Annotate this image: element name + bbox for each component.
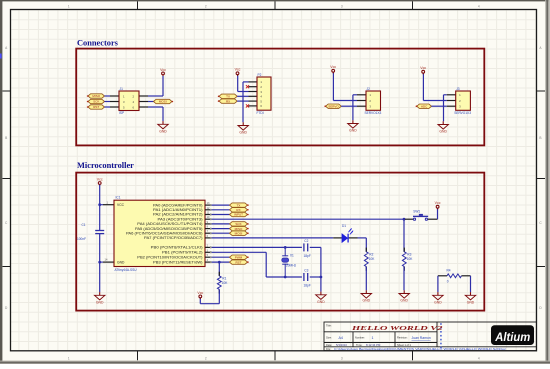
switch SW1 bbox=[405, 210, 438, 221]
microcontroller IC1 ATtiny44A-SSU bbox=[114, 196, 205, 273]
junction bbox=[403, 218, 406, 221]
wire bbox=[200, 289, 219, 303]
ground J3 bbox=[438, 121, 448, 133]
svg-text:PA4 (ADC4/USCK/SCL/T1/PCINT4): PA4 (ADC4/USCK/SCL/T1/PCINT4) bbox=[137, 222, 202, 226]
power Vcc J3 bbox=[420, 66, 426, 74]
svg-text:A4: A4 bbox=[339, 336, 343, 340]
port RX bbox=[230, 208, 249, 212]
svg-text:TX: TX bbox=[237, 203, 241, 207]
junction bbox=[284, 276, 287, 279]
svg-text:D1: D1 bbox=[342, 224, 346, 228]
svg-text:3: 3 bbox=[341, 4, 343, 8]
power Vcc SW1 bbox=[435, 201, 441, 209]
connector J1 bbox=[119, 87, 139, 115]
svg-text:PB2 (PCINT10/INT0/OC0A/CKOUT): PB2 (PCINT10/INT0/OC0A/CKOUT) bbox=[137, 255, 202, 259]
ground R4b bbox=[465, 292, 475, 304]
resistor R2 bbox=[364, 248, 375, 271]
connector J2 pins bbox=[357, 95, 366, 106]
svg-text:GND: GND bbox=[159, 130, 167, 134]
connector J1 pins left bbox=[110, 96, 148, 107]
svg-text:Vcc: Vcc bbox=[420, 66, 426, 70]
port SCK bbox=[230, 222, 249, 226]
svg-text:B: B bbox=[539, 136, 541, 140]
power Vcc R1 bbox=[197, 291, 203, 299]
svg-text:4: 4 bbox=[478, 356, 480, 360]
svg-text:1: 1 bbox=[68, 4, 70, 8]
svg-text:Vcc: Vcc bbox=[235, 68, 241, 72]
svg-text:10K: 10K bbox=[407, 257, 414, 261]
resistor R1 bbox=[217, 272, 228, 294]
wire bbox=[212, 223, 230, 225]
svg-text:10K: 10K bbox=[222, 281, 229, 285]
svg-text:C3: C3 bbox=[304, 268, 308, 272]
wire bbox=[212, 232, 230, 234]
no-connect X pin6 bbox=[246, 104, 249, 107]
svg-text:SERVO: SERVO bbox=[328, 104, 339, 108]
svg-text:2: 2 bbox=[205, 356, 207, 360]
svg-text:R3: R3 bbox=[407, 252, 411, 256]
wire bbox=[212, 209, 230, 211]
IC1 pin 1 VCC bbox=[100, 200, 114, 204]
svg-text:GND: GND bbox=[439, 130, 447, 134]
wire bbox=[243, 82, 249, 122]
wire bbox=[212, 261, 230, 263]
svg-text:J2: J2 bbox=[367, 87, 371, 91]
sheet section Connectors bbox=[76, 38, 484, 145]
svg-text:10K: 10K bbox=[369, 257, 376, 261]
svg-text:R1: R1 bbox=[222, 277, 226, 281]
svg-text:Size:: Size: bbox=[326, 336, 332, 340]
port ADC bbox=[416, 104, 432, 108]
ground J1 bbox=[158, 121, 168, 133]
junction bbox=[320, 276, 323, 279]
wire bbox=[212, 237, 334, 239]
svg-text:0: 0 bbox=[447, 279, 449, 283]
wire bbox=[237, 100, 248, 102]
wire bbox=[212, 214, 230, 216]
wire bbox=[212, 228, 230, 230]
svg-text:Juan Ramon: Juan Ramon bbox=[412, 336, 431, 340]
port RST bbox=[87, 105, 105, 109]
svg-text:GND: GND bbox=[400, 299, 408, 303]
port SCK bbox=[87, 99, 105, 103]
svg-text:1: 1 bbox=[372, 336, 374, 340]
svg-text:GND: GND bbox=[239, 131, 247, 135]
wire bbox=[237, 95, 248, 97]
svg-text:SCK: SCK bbox=[93, 100, 99, 104]
svg-text:Vcc: Vcc bbox=[330, 65, 336, 69]
svg-text:INPUT: INPUT bbox=[234, 213, 243, 217]
resistor R3 bbox=[402, 248, 413, 271]
capacitor C2 bbox=[304, 239, 311, 258]
svg-text:Time:: Time: bbox=[356, 343, 363, 347]
IC1 right pins bbox=[205, 202, 212, 263]
wire bbox=[148, 107, 163, 121]
svg-text:FTDI: FTDI bbox=[257, 111, 264, 115]
power Vcc J2 bbox=[330, 65, 336, 73]
wire bbox=[212, 204, 230, 206]
wire bbox=[218, 262, 220, 276]
connector P2 bbox=[257, 73, 272, 115]
svg-text:18pF: 18pF bbox=[304, 254, 311, 258]
svg-text:R2: R2 bbox=[369, 252, 373, 256]
svg-text:Microcontroller: Microcontroller bbox=[77, 161, 134, 170]
power Vcc IC1 bbox=[97, 177, 103, 185]
wire bbox=[437, 276, 439, 292]
svg-text:PA1 (ADC1/AIN0/PCINT1): PA1 (ADC1/AIN0/PCINT1) bbox=[153, 208, 203, 212]
svg-text:VCC: VCC bbox=[117, 203, 125, 207]
svg-text:C2: C2 bbox=[304, 239, 308, 243]
ground R4a bbox=[433, 292, 443, 304]
ground X1 bbox=[316, 292, 326, 304]
svg-text:Vcc: Vcc bbox=[160, 68, 166, 72]
LED D1 bbox=[333, 224, 357, 243]
svg-text:SERVO1X3: SERVO1X3 bbox=[454, 111, 471, 115]
sheet section Microcontroller bbox=[76, 161, 484, 310]
wire bbox=[365, 267, 367, 291]
svg-text:3: 3 bbox=[341, 356, 343, 360]
svg-text:J1: J1 bbox=[120, 87, 124, 91]
port TX bbox=[218, 94, 237, 98]
svg-text:TX: TX bbox=[226, 95, 230, 99]
svg-text:GND: GND bbox=[467, 301, 475, 305]
power Vcc P2 bbox=[235, 68, 241, 76]
wire bbox=[403, 267, 405, 291]
svg-text:X1: X1 bbox=[290, 254, 294, 258]
port MISO bbox=[87, 94, 105, 98]
svg-text:PWM: PWM bbox=[235, 255, 243, 259]
port MOSI bbox=[154, 99, 174, 103]
svg-text:ISP: ISP bbox=[119, 111, 124, 115]
svg-text:PB0 (PCINT8/XTAL1/CLKI): PB0 (PCINT8/XTAL1/CLKI) bbox=[151, 246, 203, 250]
svg-text:GND: GND bbox=[117, 261, 125, 265]
crystal X1 20MHz bbox=[282, 247, 297, 277]
svg-text:PA6 (PCINT6/OC1A/SDA/MOSI/DI/A: PA6 (PCINT6/OC1A/SDA/MOSI/DI/ADC6) bbox=[126, 231, 203, 235]
svg-text:SW1: SW1 bbox=[413, 210, 420, 214]
svg-text:Vcc: Vcc bbox=[197, 291, 203, 295]
svg-text:GND: GND bbox=[363, 299, 371, 303]
svg-text:PB1 (PCINT9/XTAL2): PB1 (PCINT9/XTAL2) bbox=[162, 251, 203, 255]
svg-text:2: 2 bbox=[205, 4, 207, 8]
wire bbox=[212, 218, 404, 220]
wire bbox=[444, 95, 447, 122]
port TX bbox=[230, 203, 249, 207]
wire bbox=[238, 75, 249, 92]
svg-text:C1: C1 bbox=[82, 223, 86, 227]
svg-text:P2: P2 bbox=[258, 73, 262, 77]
svg-text:18pF: 18pF bbox=[304, 284, 311, 288]
svg-text:100nF: 100nF bbox=[77, 237, 86, 241]
svg-text:ADC: ADC bbox=[421, 104, 428, 108]
wire bbox=[310, 276, 321, 278]
svg-text:Revision:: Revision: bbox=[397, 336, 408, 340]
no-connect X pin2 bbox=[246, 85, 249, 88]
port RST bbox=[230, 260, 249, 264]
svg-text:B: B bbox=[5, 136, 7, 140]
svg-text:Altium: Altium bbox=[494, 332, 530, 344]
wire bbox=[310, 247, 321, 291]
junction bbox=[98, 203, 101, 206]
power Vcc J1 bbox=[160, 68, 166, 76]
svg-text:Vcc: Vcc bbox=[435, 201, 441, 205]
svg-text:Date:: Date: bbox=[326, 343, 332, 347]
svg-text:PA5 (ADC5/DO/MISO/OC1B/PCINT5): PA5 (ADC5/DO/MISO/OC1B/PCINT5) bbox=[135, 227, 203, 231]
svg-text:MISO: MISO bbox=[92, 94, 100, 98]
connector J2 bbox=[365, 87, 382, 115]
svg-text:MISO: MISO bbox=[235, 227, 243, 231]
connector J3 bbox=[454, 87, 471, 115]
svg-text:1: 1 bbox=[68, 356, 70, 360]
svg-text:ATtiny44A-SSU: ATtiny44A-SSU bbox=[115, 268, 138, 272]
svg-text:R4: R4 bbox=[447, 269, 451, 273]
wire bbox=[148, 76, 163, 96]
wire bbox=[212, 256, 230, 258]
svg-text:Connectors: Connectors bbox=[77, 38, 119, 47]
port MOSI bbox=[230, 231, 249, 235]
svg-text:J3: J3 bbox=[456, 87, 460, 91]
svg-text:Sheet 1 of 1: Sheet 1 of 1 bbox=[397, 343, 412, 347]
wire bbox=[470, 276, 472, 292]
wire bbox=[358, 238, 367, 252]
connector J3 pins bbox=[447, 95, 456, 106]
svg-text:PB3 (PCINT11/RESET/dW): PB3 (PCINT11/RESET/dW) bbox=[153, 260, 203, 264]
svg-text:IC1: IC1 bbox=[116, 196, 121, 200]
svg-text:GND: GND bbox=[317, 300, 325, 304]
junction bbox=[284, 246, 287, 249]
svg-text:HELLO WORLD V2: HELLO WORLD V2 bbox=[350, 325, 442, 332]
ground P2 bbox=[238, 122, 248, 134]
port SERVO bbox=[324, 104, 341, 108]
svg-text:Number:: Number: bbox=[355, 336, 365, 340]
wire bbox=[105, 96, 111, 107]
svg-text:MOSI: MOSI bbox=[235, 231, 243, 235]
wire bbox=[437, 208, 439, 219]
resistor R4 leads bbox=[438, 275, 471, 277]
wire bbox=[341, 105, 357, 107]
svg-text:C:\Users\Juan Berrios\Desktop\: C:\Users\Juan Berrios\Desktop\DOCUMENTOS… bbox=[334, 347, 507, 351]
svg-text:4: 4 bbox=[478, 4, 480, 8]
wire bbox=[333, 73, 357, 101]
IC1 pin 14 GND bbox=[100, 258, 114, 262]
port INPUT bbox=[230, 212, 249, 216]
resistor R4 bbox=[447, 269, 462, 284]
capacitor C1 bbox=[77, 223, 104, 241]
svg-text:GND: GND bbox=[434, 301, 442, 305]
ground IC1 bbox=[95, 292, 105, 304]
junction bbox=[98, 261, 101, 264]
ground J2 bbox=[348, 120, 358, 132]
junction bbox=[218, 261, 221, 264]
connector P2 pins bbox=[249, 82, 258, 106]
wire bbox=[148, 101, 154, 103]
svg-text:20MHz: 20MHz bbox=[286, 263, 297, 267]
svg-text:MOSI: MOSI bbox=[159, 100, 167, 104]
ground R3 bbox=[399, 290, 409, 302]
svg-text:GND: GND bbox=[96, 301, 104, 305]
svg-text:PA2 (ADC2/AIN1/PCINT2): PA2 (ADC2/AIN1/PCINT2) bbox=[153, 213, 203, 217]
svg-text:5/3/2010: 5/3/2010 bbox=[336, 343, 347, 347]
svg-text:8:12:34 PM: 8:12:34 PM bbox=[366, 343, 381, 347]
wire bbox=[212, 252, 302, 277]
port MISO bbox=[230, 226, 249, 230]
port RX bbox=[218, 99, 237, 103]
svg-text:GND: GND bbox=[349, 129, 357, 133]
ground R2 bbox=[361, 290, 371, 302]
svg-text:SCK: SCK bbox=[235, 222, 241, 226]
port PWM bbox=[230, 255, 249, 259]
svg-text:Title:: Title: bbox=[326, 324, 332, 328]
svg-text:RX: RX bbox=[226, 99, 230, 103]
svg-text:Vcc: Vcc bbox=[97, 177, 103, 181]
svg-text:SERVO1X3: SERVO1X3 bbox=[365, 111, 382, 115]
svg-text:PA7 (PCINT7/ICP/OC0B/ADC7): PA7 (PCINT7/ICP/OC0B/ADC7) bbox=[144, 236, 203, 240]
svg-text:RST: RST bbox=[93, 105, 99, 109]
capacitor C3 bbox=[304, 268, 311, 287]
svg-text:RST: RST bbox=[236, 260, 242, 264]
wire bbox=[99, 234, 101, 292]
wire bbox=[432, 105, 447, 107]
svg-text:RX: RX bbox=[236, 208, 240, 212]
wire bbox=[403, 219, 405, 252]
svg-text:PA0 (ADC0/AREF/PCINT0): PA0 (ADC0/AREF/PCINT0) bbox=[153, 203, 203, 207]
wire bbox=[353, 95, 357, 121]
svg-text:File:: File: bbox=[326, 347, 331, 351]
wire bbox=[99, 185, 101, 231]
wire bbox=[212, 246, 302, 248]
svg-text:PA3 (ADC3/T0/PCINT3): PA3 (ADC3/T0/PCINT3) bbox=[158, 217, 203, 221]
wire bbox=[423, 73, 446, 100]
